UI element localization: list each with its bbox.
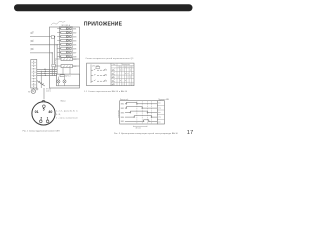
svg-text:ПРИЛОЖЕНИЕ: ПРИЛОЖЕНИЕ [84, 21, 123, 27]
svg-text:МВ2: МВ2 [121, 108, 125, 110]
node label L1 [31, 32, 34, 34]
bus riser 1 [54, 37, 56, 77]
bus riser 2 [56, 45, 58, 76]
motor feeder wire [37, 81, 45, 87]
svg-text:x: x [130, 69, 131, 71]
top separator bar [14, 4, 193, 11]
svg-text:ЩУ 0,4: ЩУ 0,4 [65, 76, 70, 78]
relay KM5 [61, 43, 67, 45]
motor M [31, 89, 35, 93]
svg-text:МВ3: МВ3 [121, 112, 125, 114]
duct inner line [33, 61, 35, 88]
waveform 2 [125, 107, 157, 109]
switch common bus [90, 65, 92, 84]
aux box [96, 67, 100, 69]
wire duct to panel 3 [37, 72, 57, 74]
svg-text:5: 5 [43, 108, 45, 112]
junction dot 2 [45, 71, 46, 72]
svg-text:40 сек: 40 сек [136, 128, 141, 130]
svg-text:x: x [127, 73, 128, 75]
relay KM1 [61, 27, 67, 29]
svg-text:спу: спу [158, 117, 161, 119]
relay column enclosure [59, 27, 72, 58]
conductor slash marks [39, 81, 44, 85]
svg-text:5 - жила заземления: 5 - жила заземления [56, 117, 78, 119]
chart vertical grid [137, 101, 152, 124]
lamp HL1 [57, 80, 60, 83]
timing chart frame [120, 101, 158, 124]
svg-text:Рис. 3 Циклограмма коммутации: Рис. 3 Циклограмма коммутации цепей элек… [114, 132, 179, 135]
bus fuse box [52, 64, 55, 66]
fuse F1 on riser [51, 36, 54, 39]
relay KM2 [61, 31, 67, 33]
right column row lines [157, 104, 164, 106]
svg-text:Положение: Положение [121, 64, 130, 66]
svg-text:KV2: KV2 [73, 66, 76, 68]
waveform node circles [126, 103, 152, 122]
svg-text:операции: операции [118, 110, 120, 118]
svg-text:взв: взв [158, 112, 161, 114]
junction dot 4 [45, 75, 46, 76]
svg-text:KM5: KM5 [73, 44, 77, 46]
svg-text:x: x [120, 80, 121, 82]
svg-text:x: x [118, 77, 119, 79]
panel breaker box [60, 75, 65, 77]
chart right column marks [158, 103, 161, 124]
svg-text:спу: спу [158, 107, 161, 109]
svg-text:6: 6 [130, 66, 131, 68]
relay KM6 [61, 47, 67, 49]
svg-text:1.1 Схема переключения ВА-10 и: 1.1 Схема переключения ВА-10 и ВА-10 [84, 90, 128, 93]
wire phase A input [30, 36, 55, 38]
KV inner ticks [63, 59, 71, 68]
chart bottom note [134, 126, 148, 127]
wire duct to panel 2 [37, 70, 57, 72]
svg-text:2: 2 [40, 116, 42, 120]
svg-text:17: 17 [187, 130, 193, 136]
relay KM3 [61, 35, 67, 37]
svg-text:01: 01 [35, 110, 39, 114]
cabinet outline [50, 27, 80, 88]
lamp wires [58, 74, 64, 86]
svg-text:40: 40 [48, 110, 52, 114]
bus dashed link [55, 60, 57, 70]
table symbol column glyphs [112, 69, 115, 85]
svg-text:x: x [125, 80, 126, 82]
drop cable to connector [43, 88, 45, 99]
wire phase B input [30, 44, 57, 46]
contact row 2 [91, 74, 107, 76]
svg-text:Рис. 1 Схема подключения кабел: Рис. 1 Схема подключения кабеля СИП [23, 130, 61, 132]
relay KM4 [61, 39, 67, 41]
svg-text:взв: взв [158, 121, 161, 123]
contact row 3 [91, 80, 107, 82]
relay KV1 [61, 58, 73, 61]
contactor chain links [59, 28, 61, 58]
svg-text:Схема вторичных цепей переключ: Схема вторичных цепей переключателя Q1 [86, 57, 135, 60]
bus riser 3 [51, 53, 53, 76]
connector shell [32, 102, 55, 125]
motor tap circle [36, 88, 38, 90]
sub panel box [56, 74, 79, 86]
node label L3 [31, 48, 34, 50]
motor branch wire [33, 88, 35, 89]
wire phase C input [30, 52, 52, 54]
svg-text:x: x [127, 77, 128, 79]
node label L2 [31, 40, 34, 42]
relay pin stubs left [57, 29, 61, 57]
svg-text:x: x [123, 84, 124, 86]
svg-text:МВ5: МВ5 [121, 121, 125, 123]
svg-text:x: x [123, 69, 124, 71]
drop wire left [40, 71, 42, 88]
relay KV2 [61, 65, 73, 68]
pin 1 [46, 120, 49, 123]
svg-text:4 - N;: 4 - N; [56, 114, 61, 116]
junction dot 3 [44, 73, 45, 74]
svg-text:7: 7 [132, 66, 133, 68]
svg-text:x: x [130, 84, 131, 86]
svg-text:Жилы:: Жилы: [60, 101, 66, 103]
svg-text:KM7: KM7 [73, 52, 77, 54]
contact table grid [111, 63, 134, 86]
svg-text:l=40 м: l=40 м [46, 91, 52, 93]
svg-text:2: 2 [120, 66, 121, 68]
svg-text:KM2: KM2 [73, 33, 77, 35]
waveform 1 [125, 102, 157, 104]
connector key tab [42, 100, 45, 101]
svg-text:Кон: Кон [113, 64, 116, 66]
duct rungs [32, 63, 36, 85]
signature scribble [51, 21, 65, 25]
chart right column [157, 101, 164, 124]
svg-text:x: x [132, 73, 133, 75]
wire duct to panel 4 [37, 74, 57, 76]
svg-text:МВ4: МВ4 [121, 117, 125, 119]
bus junction dots [54, 36, 55, 37]
waveform 3 [125, 111, 157, 113]
svg-text:KM6: KM6 [73, 48, 77, 50]
svg-text:МВ1: МВ1 [121, 104, 125, 106]
svg-text:x: x [132, 84, 133, 86]
svg-text:KV1: KV1 [73, 59, 76, 61]
svg-text:KM4: KM4 [73, 41, 77, 43]
svg-text:1, 2,3 - фазы А, В, С;: 1, 2,3 - фазы А, В, С; [56, 110, 79, 113]
svg-text:взв: взв [158, 103, 161, 105]
wire duct to panel 1 [37, 68, 57, 70]
contact row 1 [91, 69, 107, 71]
svg-text:x: x [125, 73, 126, 75]
switch diagram divider [110, 63, 112, 86]
svg-text:KM1: KM1 [73, 29, 77, 31]
svg-text:SF1 QF1 A: SF1 QF1 A [62, 24, 71, 27]
lamp HL2 [63, 80, 66, 83]
svg-text:x: x [130, 77, 131, 79]
waveform 5 [125, 120, 157, 122]
svg-text:KM8: KM8 [73, 56, 77, 58]
waveform 4 [125, 116, 157, 118]
feeder cable duct [31, 60, 37, 89]
pin 5 [43, 105, 46, 108]
relay cross marks [67, 28, 70, 57]
svg-text:KM3: KM3 [73, 37, 77, 39]
svg-text:x: x [120, 69, 121, 71]
relay KM7 [61, 51, 67, 53]
junction dot 1 [44, 69, 45, 70]
relay KM8 [61, 55, 67, 57]
svg-text:1: 1 [47, 116, 49, 120]
KV drop wires [62, 68, 64, 75]
pin 2 [40, 120, 43, 123]
switch diagram frame [87, 63, 134, 86]
KV link wires [52, 59, 79, 66]
